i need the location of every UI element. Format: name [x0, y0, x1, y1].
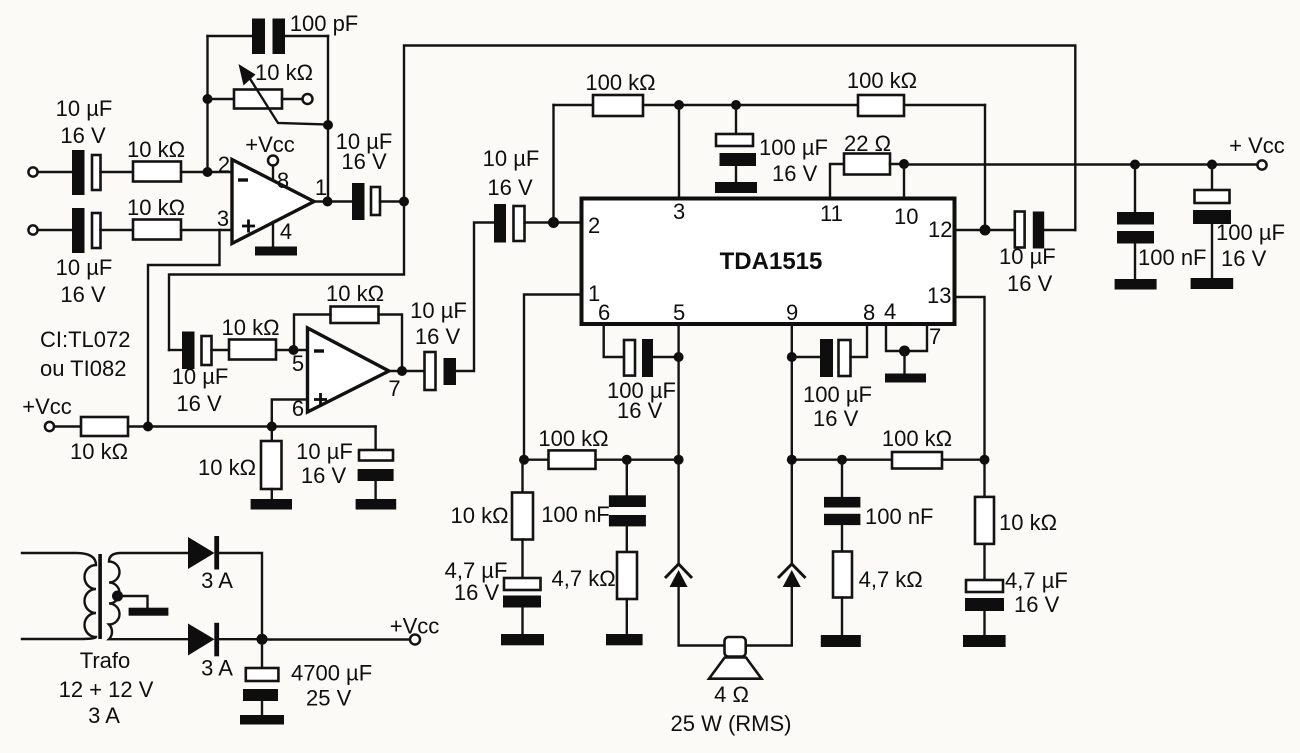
resistor R11 10 kOhm left	[512, 493, 533, 540]
svg-text:3: 3	[673, 199, 685, 224]
node bias pin3 branch	[143, 422, 153, 432]
svg-text:10 kΩ: 10 kΩ	[127, 137, 185, 162]
terminal pot open end	[303, 94, 313, 104]
wire C8 to pin 2	[525, 221, 582, 223]
wire J2 to C2	[38, 229, 72, 231]
wire feedback top right	[285, 35, 328, 37]
svg-text:4,7 µF: 4,7 µF	[1005, 568, 1068, 593]
wire R1 to opamp pin 2	[181, 171, 232, 173]
node after C3	[399, 197, 409, 207]
wire R14 to ground	[841, 598, 843, 636]
wire R6 to ground	[271, 489, 273, 499]
node pin13 branch	[980, 455, 990, 465]
wire feedback left R4	[294, 315, 331, 351]
wire C7 to ground	[374, 481, 376, 499]
wire bias to C7	[374, 427, 376, 451]
resistor R9 22 Ohm	[844, 154, 890, 175]
wire C19 to ground	[261, 701, 263, 715]
wire pin 8	[851, 324, 868, 357]
svg-text:10 µF: 10 µF	[410, 298, 467, 323]
capacitor C12 10 uF pin 12	[1015, 212, 1044, 249]
svg-text:16 V: 16 V	[301, 463, 347, 488]
node rectifier output	[257, 634, 268, 645]
capacitor C1 10 uF input 1	[72, 150, 101, 195]
node C17 junction	[837, 455, 847, 465]
svg-text:16 V: 16 V	[341, 149, 387, 174]
wire R15 to C18	[983, 544, 985, 580]
ground R12	[606, 634, 643, 645]
ground C11	[1191, 278, 1234, 289]
resistor R1 10 kOhm input 1	[133, 162, 181, 182]
wire node to ground	[903, 351, 905, 374]
wire C3 to node	[380, 200, 404, 202]
resistor R2 10 kOhm input 2	[133, 220, 181, 240]
wire pin 7 output	[389, 370, 425, 372]
svg-text:100 µF: 100 µF	[759, 135, 828, 160]
svg-text:13: 13	[927, 283, 951, 308]
wire opamp1 out down to opamp2 path	[169, 202, 404, 351]
wire pin 5 down	[677, 324, 679, 563]
node pin9 C16	[787, 352, 797, 362]
minus symbol U1A	[238, 178, 248, 181]
capacitor C13 100 nF left	[609, 495, 646, 526]
svg-text:2: 2	[218, 152, 230, 177]
wire pin 9 down	[791, 324, 793, 563]
svg-text:16 V: 16 V	[1014, 592, 1060, 617]
svg-text:10 kΩ: 10 kΩ	[198, 455, 256, 480]
svg-text:16 V: 16 V	[415, 324, 461, 349]
ground opamp1 pin 4	[255, 247, 297, 256]
wire C12 to top rail	[1044, 229, 1075, 231]
wire into C5	[169, 349, 182, 351]
svg-text:100 kΩ: 100 kΩ	[538, 426, 608, 451]
svg-text:25 V: 25 V	[306, 686, 352, 711]
node pin1 branch	[519, 455, 529, 465]
wire C15 to pin5 line	[653, 356, 679, 358]
wire C2 to R2	[101, 229, 134, 231]
svg-text:25 W (RMS): 25 W (RMS)	[671, 711, 792, 736]
svg-text:100 kΩ: 100 kΩ	[847, 68, 917, 93]
+Vcc terminal bias	[45, 422, 54, 431]
wire node to +Vcc terminal	[262, 638, 410, 640]
wire long top rail	[404, 46, 1075, 231]
wire pin13 node down to R15	[983, 460, 985, 497]
ground C19	[240, 715, 284, 725]
resistor R4 10 kOhm feedback opamp2	[331, 307, 379, 324]
svg-text:4,7 kΩ: 4,7 kΩ	[552, 566, 616, 591]
wire R2 to opamp pin 3	[181, 229, 232, 231]
svg-text:10 µF: 10 µF	[172, 364, 229, 389]
svg-text:10 µF: 10 µF	[56, 96, 113, 121]
svg-text:6: 6	[598, 300, 610, 325]
capacitor C4 100 pF	[252, 19, 285, 55]
wire C17 to R14	[841, 525, 843, 551]
wire C13 down	[626, 460, 628, 496]
svg-text:10 µF: 10 µF	[483, 146, 540, 171]
transformer T1 secondary	[109, 553, 188, 639]
node center tap	[112, 591, 123, 602]
wire R13 to pin13 node	[942, 459, 985, 461]
node pot left junction	[203, 94, 213, 104]
svg-text:4: 4	[884, 299, 896, 324]
wire C14 to ground	[521, 608, 523, 635]
resistor R8 100 kOhm feedback right	[858, 95, 904, 116]
wire pin 11 up	[830, 164, 844, 199]
resistor R7 100 kOhm feedback left	[593, 95, 643, 116]
diode D1 3 A	[188, 536, 219, 570]
ground center tap	[129, 608, 169, 616]
capacitor C16 100 uF pin8	[820, 339, 851, 377]
wire pin2 node up	[552, 105, 554, 223]
svg-text:4: 4	[280, 219, 292, 244]
svg-text:16 V: 16 V	[772, 161, 818, 186]
svg-text:10 kΩ: 10 kΩ	[255, 60, 313, 85]
node C11	[1207, 160, 1217, 170]
wire down to C10	[1134, 165, 1136, 213]
svg-text:100 pF: 100 pF	[290, 11, 359, 36]
capacitor C3 10 uF output opamp1	[352, 183, 380, 220]
svg-text:8: 8	[863, 300, 875, 325]
wire pin 7	[905, 324, 928, 351]
svg-text:16 V: 16 V	[1007, 271, 1053, 296]
wire J1 to C1	[38, 171, 72, 173]
svg-text:100 µF: 100 µF	[1216, 220, 1285, 245]
node pin2 input IC	[548, 217, 559, 228]
wire C1 to R1	[101, 171, 134, 173]
wire pin 4	[886, 324, 905, 351]
svg-text:16 V: 16 V	[176, 391, 222, 416]
capacitor C6 10 uF opamp2 output	[425, 352, 457, 390]
node C9 junction	[731, 100, 741, 110]
wire R12 to ground	[626, 599, 628, 634]
wire center tap	[118, 596, 148, 608]
+Vcc terminal pin 8	[268, 156, 278, 166]
svg-text:100 nF: 100 nF	[1138, 245, 1207, 270]
resistor R10 100 kOhm left	[549, 450, 596, 469]
svg-text:16 V: 16 V	[813, 406, 859, 431]
ground C9	[715, 182, 757, 193]
resistor R14 4,7 kOhm right	[833, 552, 852, 598]
ground R6	[251, 499, 292, 510]
wire C6 up to C8	[456, 223, 494, 372]
wire feedback top left	[208, 35, 253, 37]
svg-text:5: 5	[673, 300, 685, 325]
svg-text:100 kΩ: 100 kΩ	[585, 70, 655, 95]
svg-text:3 A: 3 A	[201, 568, 233, 593]
wire speaker right	[746, 586, 792, 646]
wire C17 down	[841, 460, 843, 497]
speaker LS1	[709, 637, 762, 679]
svg-text:8: 8	[277, 168, 289, 193]
connector arrow right head	[783, 570, 801, 587]
wire to R7	[554, 104, 594, 106]
svg-text:10: 10	[894, 204, 918, 229]
svg-text:10 µF: 10 µF	[296, 439, 353, 464]
transformer T1 primary	[22, 553, 96, 639]
capacitor C2 10 uF input 2	[72, 208, 101, 253]
resistor R12 4,7 kOhm left	[617, 552, 637, 599]
potentiometer P1 10 kOhm body	[234, 90, 282, 109]
plus symbol U1A	[242, 220, 255, 233]
svg-text:10 kΩ: 10 kΩ	[326, 281, 384, 306]
svg-text:100 kΩ: 100 kΩ	[882, 426, 952, 451]
capacitor C11 100 uF right	[1193, 190, 1231, 224]
wire C18 to ground	[983, 611, 985, 635]
capacitor C5 10 uF opamp2 input	[182, 332, 212, 370]
node bias divider	[267, 422, 277, 432]
node pin5 line junction	[674, 455, 684, 465]
wire pot left	[208, 98, 235, 100]
svg-text:4 Ω: 4 Ω	[714, 682, 749, 707]
node junction pin2	[203, 167, 213, 177]
node pin5 C15	[674, 352, 684, 362]
svg-text:+Vcc: +Vcc	[22, 394, 72, 419]
capacitor C7 10 uF bias decouple	[358, 450, 394, 481]
IC U2 TDA1515 body	[582, 199, 955, 325]
wire R3 to pin 5	[276, 349, 308, 351]
svg-text:+Vcc: +Vcc	[245, 132, 295, 157]
svg-text:10 µF: 10 µF	[56, 255, 113, 280]
svg-text:7: 7	[929, 324, 941, 349]
wire pin 4	[272, 222, 274, 247]
resistor R13 100 kOhm right	[892, 452, 942, 469]
svg-text:TDA1515: TDA1515	[720, 248, 823, 275]
wire pin9 line to R13	[792, 459, 892, 461]
wire R9 to node	[890, 163, 904, 165]
terminal + Vcc right	[1257, 160, 1266, 169]
wire pin 13 right and down	[955, 297, 985, 460]
connector arrow left chevron	[665, 564, 692, 578]
wire R7 to corner	[643, 104, 985, 106]
svg-text:10 µF: 10 µF	[999, 244, 1056, 269]
wire down to pin 3	[678, 105, 680, 199]
node pin 12	[980, 225, 991, 236]
svg-text:12 + 12 V: 12 + 12 V	[59, 677, 154, 702]
wire C10 to ground	[1134, 244, 1136, 280]
wire D2 to node	[219, 638, 262, 640]
svg-text:100 µF: 100 µF	[803, 382, 872, 407]
wire corner down to pin 12 node	[984, 105, 986, 230]
terminal +Vcc supply	[410, 635, 420, 645]
svg-text:16 V: 16 V	[60, 282, 106, 307]
resistor R6 10 kOhm to ground	[261, 441, 282, 489]
wire down to C11	[1211, 165, 1213, 191]
op-amp U1A TL072	[232, 160, 314, 244]
capacitor C8 10 uF into IC pin 2	[494, 204, 525, 243]
svg-text:12: 12	[928, 217, 952, 242]
svg-text:10 kΩ: 10 kΩ	[221, 315, 279, 340]
svg-text:1: 1	[315, 175, 327, 200]
wire pin 8	[272, 166, 274, 181]
resistor R5 10 kOhm bias	[81, 417, 128, 436]
node pin 10	[899, 159, 909, 169]
capacitor C18 4,7 uF right	[965, 580, 1004, 611]
svg-text:3: 3	[217, 206, 229, 231]
wire pin 6	[604, 324, 624, 357]
wire bias row	[128, 425, 376, 427]
node C10	[1130, 160, 1140, 170]
svg-text:5: 5	[292, 351, 304, 376]
wire speaker left	[679, 586, 725, 646]
svg-text:10 kΩ: 10 kΩ	[127, 195, 185, 220]
ground R14	[821, 635, 861, 647]
wire node to R10	[524, 459, 549, 461]
minus symbol U1B	[314, 349, 324, 352]
wire D1 to node	[219, 553, 262, 639]
svg-text:16 V: 16 V	[1221, 246, 1267, 271]
capacitor C17 100 nF right	[824, 497, 860, 525]
svg-text:100 nF: 100 nF	[865, 504, 934, 529]
wire feedback right R4	[379, 315, 403, 372]
node output opamp1	[323, 197, 333, 207]
wire pin 1 left and down	[524, 295, 582, 460]
wire pin9 to C16	[792, 356, 820, 358]
wire Vcc rail right	[904, 163, 1258, 165]
svg-text:16 V: 16 V	[487, 175, 533, 200]
svg-text:3 A: 3 A	[201, 656, 233, 681]
node pin9 line bottom	[787, 455, 797, 465]
svg-text:3 A: 3 A	[88, 703, 120, 728]
capacitor C15 100 uF pin6	[624, 339, 653, 377]
wire C11 to ground	[1211, 224, 1213, 278]
ground C10	[1115, 279, 1157, 290]
svg-text:16 V: 16 V	[454, 580, 500, 605]
wire C9 to ground	[735, 166, 737, 182]
svg-text:Trafo: Trafo	[80, 648, 131, 673]
ground C14	[501, 634, 544, 645]
node pin 3 top	[674, 100, 684, 110]
svg-text:ou TI082: ou TI082	[40, 356, 126, 381]
node C13 junction	[622, 455, 632, 465]
resistor R3 10 kOhm opamp2 input	[229, 340, 276, 360]
ground C18	[963, 635, 1006, 647]
potentiometer wiper arrow	[239, 64, 329, 125]
op-amp U1B TL072	[308, 328, 390, 412]
ground C7	[356, 499, 397, 510]
wire terminal to R5	[54, 425, 81, 427]
svg-text:10 kΩ: 10 kΩ	[70, 439, 128, 464]
svg-text:10 kΩ: 10 kΩ	[999, 510, 1057, 535]
wire R11 to C14	[521, 540, 523, 579]
node pin 5 junction	[289, 345, 299, 355]
ground pins 4 7	[885, 374, 926, 383]
wire feedback right vertical	[327, 36, 329, 202]
connector arrow left head	[670, 570, 688, 587]
wire pot right	[282, 98, 303, 100]
svg-text:10 kΩ: 10 kΩ	[450, 503, 508, 528]
wire pin1 node down to R11	[521, 460, 523, 493]
node pin 7	[397, 366, 407, 376]
svg-text:16 V: 16 V	[60, 123, 106, 148]
svg-text:2: 2	[588, 213, 600, 238]
svg-text:+ Vcc: + Vcc	[1229, 133, 1285, 158]
capacitor C19 4700 uF	[243, 668, 278, 701]
wire pin 1 output	[314, 200, 352, 202]
svg-text:7: 7	[388, 376, 400, 401]
wire feedback left vertical	[206, 36, 208, 172]
svg-text:11: 11	[820, 201, 843, 226]
plus symbol U1B	[314, 393, 327, 406]
svg-text:CI:TL072: CI:TL072	[40, 327, 131, 352]
svg-text:22 Ω: 22 Ω	[844, 131, 891, 156]
svg-text:4,7 kΩ: 4,7 kΩ	[859, 567, 923, 592]
capacitor C10 100 nF	[1117, 212, 1154, 244]
svg-text:4700 µF: 4700 µF	[291, 661, 372, 686]
wire R10 to pin5 line	[596, 459, 679, 461]
diode D2 3 A	[188, 623, 219, 657]
capacitor C14 4,7 uF left	[503, 578, 541, 608]
wire node down to C19	[261, 639, 263, 668]
svg-text:16 V: 16 V	[617, 398, 663, 423]
wire node to pin 6	[272, 400, 308, 427]
node wiper junction	[323, 120, 333, 130]
wire C5 to R3	[212, 349, 230, 351]
capacitor C9 100 uF ripple	[716, 134, 756, 166]
svg-text:100 nF: 100 nF	[541, 502, 610, 527]
wire pin3 branch down	[148, 230, 220, 427]
wire pin 12	[955, 229, 1015, 231]
node ground pins 4 7	[899, 346, 910, 357]
wire C13 to R12	[626, 526, 628, 552]
connector arrow right chevron	[778, 564, 806, 578]
input terminal J2	[28, 225, 37, 234]
wire node down pin 10	[903, 164, 905, 199]
wire node down to R6	[271, 427, 273, 442]
resistor R15 10 kOhm right	[975, 497, 994, 544]
svg-text:9: 9	[786, 300, 798, 325]
transformer T1 core	[98, 554, 102, 639]
input terminal J1	[28, 167, 37, 176]
wire down to C9	[735, 105, 737, 134]
